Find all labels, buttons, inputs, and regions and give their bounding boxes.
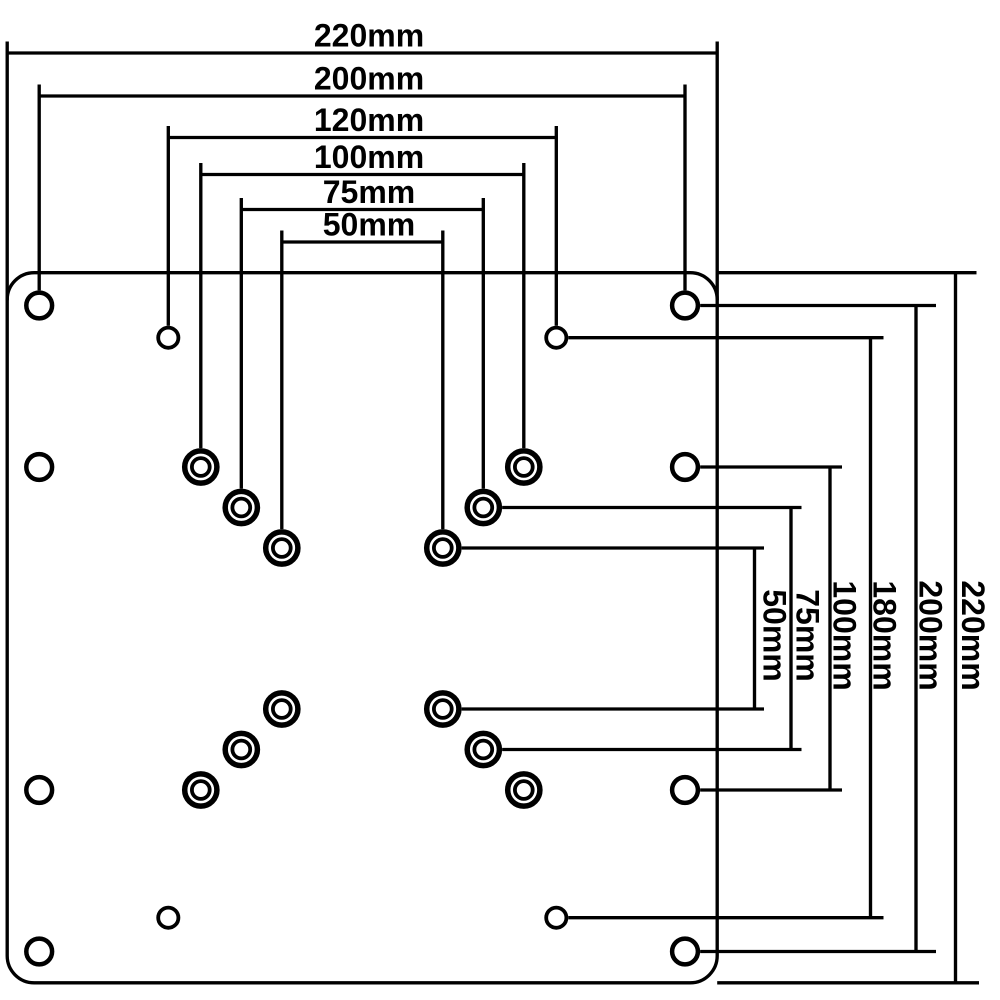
svg-text:100mm: 100mm xyxy=(314,139,424,175)
svg-text:200mm: 200mm xyxy=(314,61,424,97)
dimension line 50mm right xyxy=(753,548,756,709)
svg-text:120mm: 120mm xyxy=(314,102,424,138)
hole bottom-left corner xyxy=(26,939,52,965)
hole mid-left lower xyxy=(26,777,52,803)
dimension line 50mm top xyxy=(282,240,443,243)
plate outline xyxy=(7,273,717,983)
extension tick right 100mm top xyxy=(522,163,525,448)
extension tick right 120mm top xyxy=(555,126,558,326)
svg-text:200mm: 200mm xyxy=(913,580,949,690)
small hole top-right xyxy=(546,328,566,348)
svg-text:220mm: 220mm xyxy=(955,580,991,690)
vesa hole 75 upper-right xyxy=(467,491,499,523)
hole mid-right upper xyxy=(672,454,698,480)
vesa hole 75 upper-left xyxy=(225,491,257,523)
vesa hole 100 lower-left xyxy=(185,774,217,806)
dimension line 75mm right xyxy=(789,508,792,750)
extension tick left 220mm top xyxy=(6,42,9,301)
extension tick right 75mm top xyxy=(482,198,485,489)
extension tick left 75mm top xyxy=(240,198,243,489)
extension tick right 50mm top xyxy=(441,231,444,530)
small hole top-left xyxy=(158,328,178,348)
top edge extension line xyxy=(717,271,976,274)
hole top-left corner xyxy=(26,293,52,319)
extension line y=548.0 for 50mm right xyxy=(462,546,764,549)
svg-text:75mm: 75mm xyxy=(790,589,826,682)
extension tick left 200mm top xyxy=(38,85,41,291)
extension line y=507.5 for 75mm right xyxy=(502,506,801,509)
vesa hole 50 lower-right xyxy=(427,693,459,725)
extension tick right 200mm top xyxy=(683,85,686,291)
vesa hole 75 lower-right xyxy=(467,733,499,765)
svg-text:50mm: 50mm xyxy=(757,589,793,682)
extension line y=790.0 for 100mm right xyxy=(700,788,842,791)
hole bottom-right corner xyxy=(672,939,698,965)
small hole bottom-left xyxy=(158,908,178,928)
dimension line 220mm right xyxy=(954,273,957,983)
extension tick left 100mm top xyxy=(199,163,202,448)
svg-text:50mm: 50mm xyxy=(323,207,416,243)
vesa hole 50 upper-right xyxy=(427,532,459,564)
dimension line 100mm top xyxy=(201,173,524,176)
extension tick left 120mm top xyxy=(167,126,170,326)
dimension line 100mm right xyxy=(828,467,831,790)
dimension line 200mm right xyxy=(914,306,917,952)
dimension line 200mm top xyxy=(39,94,685,97)
dimension line 220mm top xyxy=(7,51,717,54)
svg-text:75mm: 75mm xyxy=(323,174,416,210)
bottom edge extension line xyxy=(717,981,979,984)
dimension line 75mm top xyxy=(241,208,483,211)
extension line y=337.7 for 180mm right xyxy=(568,336,883,339)
extension line y=917.7 for 180mm right xyxy=(568,916,883,919)
hole mid-left upper xyxy=(26,454,52,480)
extension line y=749.5 for 75mm right xyxy=(502,748,801,751)
extension tick right 220mm top xyxy=(716,42,719,301)
extension line y=305.5 for 200mm right xyxy=(700,304,936,307)
svg-text:100mm: 100mm xyxy=(827,580,863,690)
extension tick left 50mm top xyxy=(280,231,283,530)
hole mid-right lower xyxy=(672,777,698,803)
small hole bottom-right xyxy=(546,908,566,928)
dimension line 120mm top xyxy=(168,136,556,139)
extension line y=709.0 for 50mm right xyxy=(462,707,764,710)
vesa hole 75 lower-left xyxy=(225,733,257,765)
svg-text:220mm: 220mm xyxy=(314,18,424,54)
vesa hole 50 upper-left xyxy=(266,532,298,564)
vesa hole 50 lower-left xyxy=(266,693,298,725)
vesa hole 100 lower-right xyxy=(508,774,540,806)
svg-text:180mm: 180mm xyxy=(867,580,903,690)
extension line y=951.5 for 200mm right xyxy=(700,950,936,953)
extension line y=467.0 for 100mm right xyxy=(700,465,842,468)
vesa hole 100 upper-right xyxy=(508,451,540,483)
hole top-right corner xyxy=(672,293,698,319)
vesa hole 100 upper-left xyxy=(185,451,217,483)
dimension line 180mm right xyxy=(869,338,872,918)
